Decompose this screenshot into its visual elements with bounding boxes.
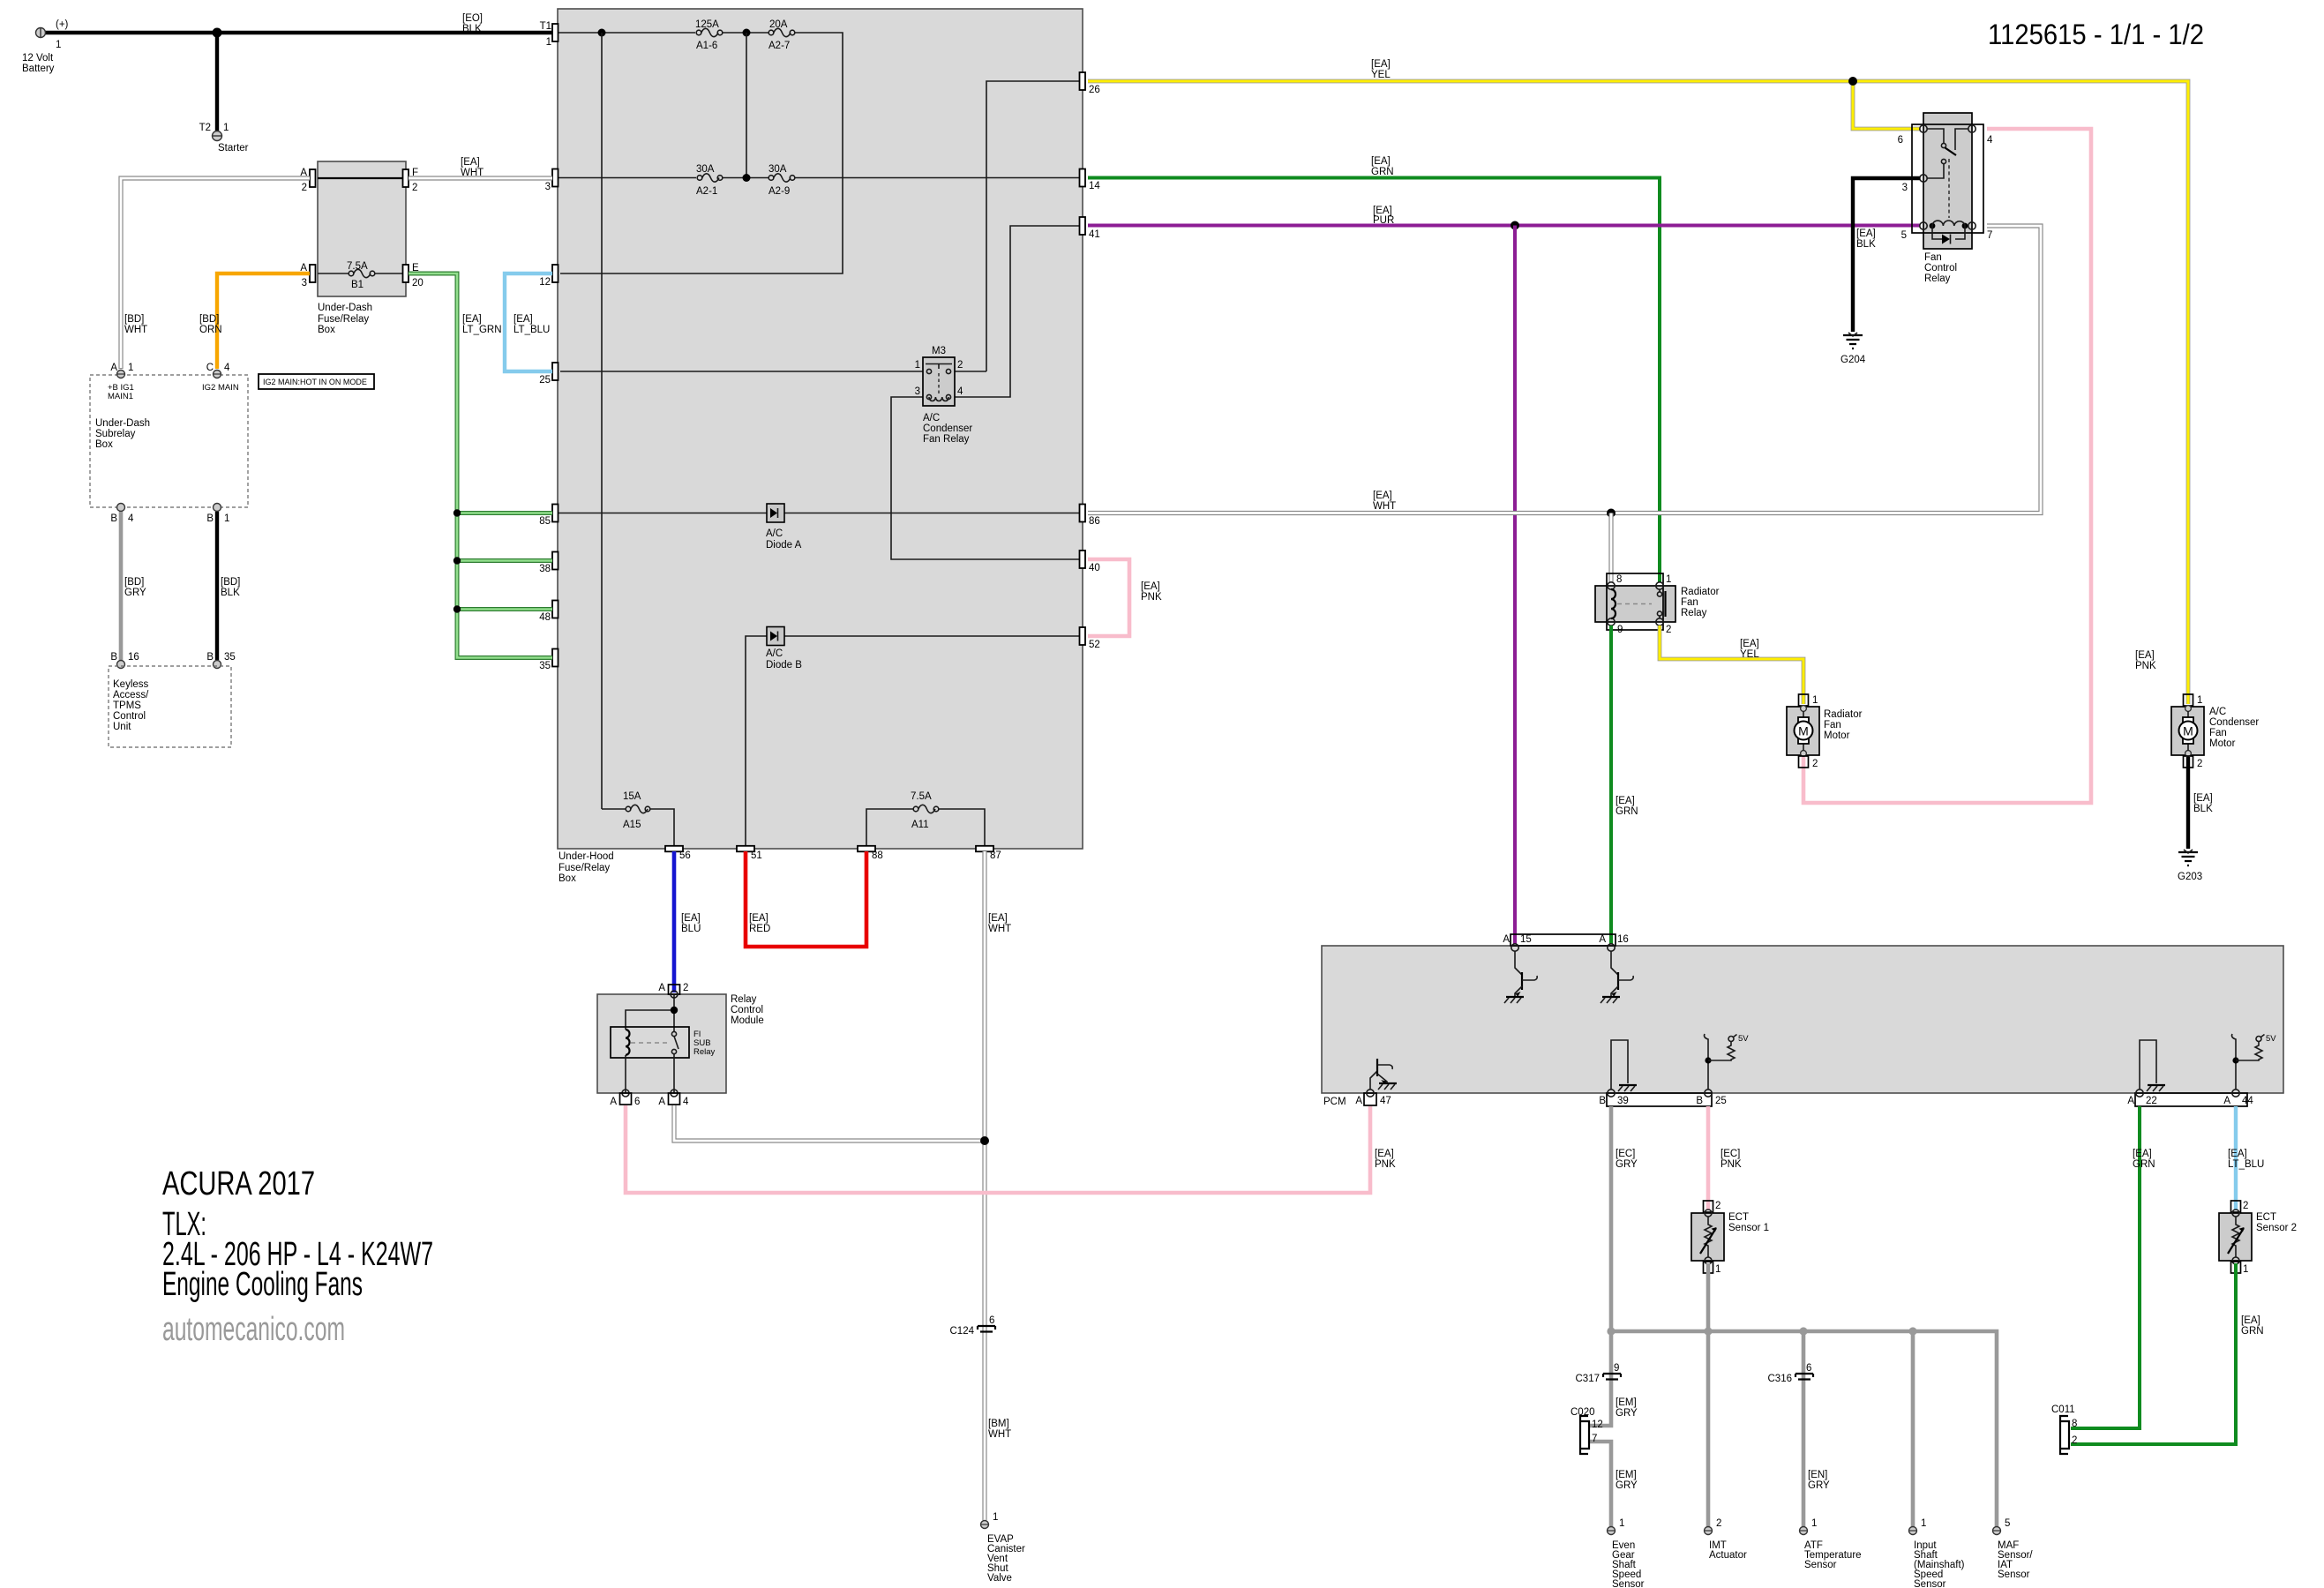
wire [EA] WHT conn86 to fan control relay pin7: [1088, 226, 2041, 513]
svg-text:G203: G203: [2178, 872, 2202, 882]
terminal IG2 MAIN: [202, 363, 239, 393]
svg-text:1: 1: [56, 40, 61, 50]
connector 86 right edge: [1080, 505, 1100, 528]
svg-text:LT_BLU: LT_BLU: [2228, 1159, 2264, 1170]
wire [EA] RED conn51 to conn88: [746, 851, 866, 947]
svg-text:87: 87: [990, 850, 1001, 861]
wire gray Input Shaft drop: [1911, 1331, 1915, 1526]
Under-Dash Fuse/Relay Box: [318, 161, 406, 335]
svg-text:38: 38: [539, 564, 551, 574]
svg-text:[EA]: [EA]: [1740, 639, 1759, 649]
svg-text:WHT: WHT: [124, 325, 147, 335]
wire [EC] PNK B25 to ECT sensor 1: [1708, 1106, 1742, 1210]
svg-text:Fuse/Relay: Fuse/Relay: [318, 314, 369, 325]
svg-text:M: M: [1798, 724, 1809, 738]
wire internal A2-F2: [318, 177, 406, 179]
inline connector C011: [2051, 1404, 2077, 1454]
connector 88 bottom edge: [858, 846, 883, 861]
svg-text:A: A: [610, 1097, 617, 1107]
A/C Diode A: [766, 504, 802, 551]
svg-text:GRY: GRY: [1808, 1480, 1830, 1491]
svg-text:Starter: Starter: [218, 143, 249, 154]
svg-text:Actuator: Actuator: [1709, 1550, 1747, 1561]
svg-text:B: B: [110, 513, 117, 524]
wire yellow branch to fan control relay pin6: [1853, 81, 1920, 129]
svg-text:[EC]: [EC]: [1721, 1149, 1740, 1159]
svg-text:4: 4: [1987, 135, 1993, 146]
svg-text:35: 35: [539, 661, 551, 671]
svg-text:30A: 30A: [696, 164, 715, 175]
svg-text:6: 6: [1898, 135, 1903, 146]
svg-text:25: 25: [539, 375, 551, 386]
inline connector C316: [1768, 1363, 1814, 1384]
svg-text:GRN: GRN: [2133, 1159, 2155, 1170]
svg-text:A2-7: A2-7: [768, 41, 790, 51]
wire [EA] GRN ECT2 to C011 pin2: [2071, 1263, 2264, 1444]
wire [EA] BLK A/C motor pin2 to G203: [2188, 757, 2213, 849]
svg-text:Control: Control: [1924, 263, 1957, 273]
svg-text:Engine Cooling Fans: Engine Cooling Fans: [162, 1266, 363, 1303]
wire [EA] YEL conn26 to A/C condenser fan motor: [1088, 59, 2188, 704]
svg-text:WHT: WHT: [1373, 501, 1396, 512]
Keyless Access/TPMS Control Unit (dashed): [109, 666, 231, 747]
svg-text:20A: 20A: [769, 19, 788, 30]
svg-text:9: 9: [1617, 625, 1623, 635]
svg-text:BLU: BLU: [681, 924, 701, 934]
svg-text:ORN: ORN: [199, 325, 222, 335]
svg-text:A: A: [110, 363, 117, 373]
svg-text:GRN: GRN: [1616, 806, 1638, 817]
connector bracket A22/A44 bottom: [2127, 1090, 2253, 1106]
svg-text:2: 2: [683, 983, 688, 993]
svg-text:M3: M3: [932, 346, 946, 356]
svg-text:C316: C316: [1768, 1374, 1793, 1384]
fuse A2-1 30A: [696, 164, 723, 197]
svg-text:2: 2: [302, 183, 307, 193]
wire internal B1 row: [318, 273, 349, 274]
junction LT_GRN tap 38: [454, 557, 461, 564]
svg-text:ECT: ECT: [2256, 1212, 2276, 1223]
svg-text:Sensor: Sensor: [1998, 1569, 2030, 1580]
wire [EA] GRN A22 to C011 pin8: [2071, 1106, 2155, 1428]
terminal MAF/IAT Sensor: [1993, 1518, 2034, 1580]
wire [BD] BLK: [217, 512, 240, 660]
internal 5V pull-up A44: [2232, 1034, 2277, 1090]
svg-text:2: 2: [2243, 1201, 2248, 1211]
ECT Sensor 2: [2219, 1201, 2297, 1275]
svg-text:30A: 30A: [768, 164, 787, 175]
svg-text:Under-Dash: Under-Dash: [318, 303, 372, 313]
Relay Control Module: [597, 994, 764, 1093]
svg-text:[BD]: [BD]: [124, 314, 144, 325]
wire [EC] GRY B39 to sensor ground bus: [1611, 1106, 1638, 1331]
svg-text:3: 3: [545, 182, 551, 192]
wire row2 to conn14: [795, 177, 1083, 179]
junction row2 x846: [743, 174, 751, 182]
EVAP Canister Vent Shut Valve terminal: [981, 1512, 1025, 1584]
svg-text:[EA]: [EA]: [988, 913, 1008, 924]
svg-text:LT_GRN: LT_GRN: [462, 325, 502, 335]
svg-text:B: B: [110, 652, 117, 663]
wire [EA] BLU conn56 to relay control module A2: [674, 851, 701, 992]
svg-text:[EA]: [EA]: [1373, 491, 1392, 501]
svg-text:14: 14: [1089, 181, 1100, 191]
terminal +B IG1 MAIN1: [108, 363, 134, 401]
svg-text:88: 88: [872, 850, 883, 861]
wire [BD] WHT to subrelay box: [121, 178, 310, 369]
svg-text:A: A: [2223, 1096, 2230, 1106]
wire row1 to 20A output corner down to conn12: [560, 33, 843, 273]
svg-text:[EA]: [EA]: [2193, 793, 2213, 804]
svg-text:3: 3: [302, 278, 307, 288]
svg-text:6: 6: [1806, 1363, 1811, 1374]
wire module internal feed: [626, 994, 674, 1032]
svg-text:Box: Box: [559, 873, 576, 884]
wire [EA] GRN radiator relay pin9 to PCM A16: [1611, 625, 1638, 944]
connector bracket A47 bottom: [1355, 1090, 1391, 1106]
svg-text:Battery: Battery: [22, 64, 55, 74]
svg-text:[EA]: [EA]: [2228, 1149, 2247, 1159]
wire vertical feed x682 to 15A fuse: [601, 33, 603, 809]
wire [EA] LT_BLU conn12 to conn25: [505, 273, 552, 371]
wire [EA] GRN conn14 to radiator fan relay pin1: [1088, 156, 1660, 582]
connector A/3: [300, 263, 315, 288]
svg-text:A: A: [1355, 1096, 1362, 1106]
svg-text:5V: 5V: [1738, 1034, 1749, 1044]
svg-text:Fan: Fan: [1924, 252, 1942, 263]
terminal IMT Actuator: [1705, 1518, 1747, 1561]
svg-text:YEL: YEL: [1740, 649, 1759, 660]
wire [EO] BLK battery feed: [45, 13, 552, 34]
wire row1 between fuses: [723, 32, 768, 34]
svg-text:22: 22: [2146, 1096, 2157, 1106]
svg-text:GRY: GRY: [1616, 1480, 1638, 1491]
connector 25 left edge: [539, 363, 558, 386]
svg-text:[EN]: [EN]: [1808, 1470, 1827, 1480]
fuse A2-7 20A: [768, 19, 795, 51]
svg-text:Fan: Fan: [1681, 597, 1698, 608]
svg-text:[EA]: [EA]: [2135, 650, 2155, 661]
svg-text:Relay: Relay: [693, 1047, 716, 1057]
svg-text:40: 40: [1089, 563, 1100, 573]
svg-text:Condenser: Condenser: [2209, 717, 2259, 728]
Fan Control Relay: [1898, 113, 1993, 284]
Radiator Fan Motor: [1787, 694, 1863, 769]
svg-text:2: 2: [1715, 1201, 1721, 1211]
svg-text:7: 7: [1987, 230, 1992, 241]
wire [BD] ORN to subrelay box: [199, 273, 310, 369]
svg-text:[EA]: [EA]: [1856, 228, 1876, 239]
wire white drop to radiator fan relay pin8: [1608, 513, 1613, 583]
svg-text:Diode B: Diode B: [766, 660, 802, 670]
junction row1 x846: [743, 29, 751, 37]
svg-text:4: 4: [224, 363, 230, 373]
wire gray ECT1 to ground bus: [1706, 1263, 1711, 1526]
connector 41 right edge: [1080, 217, 1100, 240]
svg-text:Relay: Relay: [1924, 273, 1951, 284]
wire purple drop to PCM A15: [1513, 226, 1517, 945]
svg-text:[EA]: [EA]: [1141, 581, 1160, 592]
terminal Input Shaft Speed Sensor: [1909, 1518, 1965, 1588]
svg-text:3: 3: [915, 386, 920, 397]
svg-text:Under-Hood: Under-Hood: [559, 851, 614, 862]
svg-text:1: 1: [223, 123, 229, 133]
internal 5V pull-up B25: [1705, 1034, 1750, 1090]
svg-text:Fan: Fan: [2209, 728, 2227, 738]
connector E/20: [403, 263, 424, 288]
svg-text:7.5A: 7.5A: [911, 791, 932, 802]
svg-text:48: 48: [539, 612, 551, 623]
svg-text:Relay: Relay: [1681, 608, 1707, 618]
svg-text:Control: Control: [731, 1005, 763, 1015]
svg-text:Subrelay: Subrelay: [95, 429, 136, 439]
svg-text:C317: C317: [1576, 1374, 1601, 1384]
svg-text:1: 1: [1619, 1518, 1624, 1529]
wire [EA] BLK fan control relay pin3 to G204: [1853, 178, 1920, 332]
svg-text:A2-9: A2-9: [768, 186, 790, 197]
svg-text:GRY: GRY: [124, 588, 146, 598]
svg-text:C: C: [206, 363, 214, 373]
svg-text:automecanico.com: automecanico.com: [162, 1311, 345, 1348]
svg-text:[EA]: [EA]: [461, 157, 480, 168]
svg-text:BLK: BLK: [2193, 804, 2213, 814]
svg-text:YEL: YEL: [1371, 70, 1391, 80]
svg-text:1: 1: [915, 360, 920, 371]
terminal ATF Temperature Sensor: [1800, 1518, 1862, 1570]
wire [EA] WHT conn87 to EVAP valve: [985, 851, 1011, 1520]
svg-text:RED: RED: [749, 924, 770, 934]
junction row1 x682: [598, 29, 606, 37]
internal ground loop A22: [2140, 1040, 2165, 1091]
wire [EA] PUR conn41 to fan control relay pin5: [1088, 206, 1920, 226]
svg-text:A: A: [2127, 1096, 2134, 1106]
A/C Diode B: [766, 627, 802, 671]
connector 56 bottom edge: [665, 846, 691, 861]
svg-text:25: 25: [1715, 1096, 1727, 1106]
svg-text:86: 86: [1089, 516, 1100, 527]
wire module internal to bottom pins: [626, 1053, 674, 1093]
svg-text:ACURA 2017: ACURA 2017: [162, 1165, 315, 1202]
svg-text:5V: 5V: [2266, 1034, 2276, 1044]
svg-text:[EA]: [EA]: [514, 314, 533, 325]
svg-text:[EA]: [EA]: [462, 314, 482, 325]
svg-text:56: 56: [679, 850, 691, 861]
wire [EA] PNK conn40 to conn52: [1088, 559, 1162, 636]
svg-text:Keyless: Keyless: [113, 679, 149, 690]
connector A/2 module top: [658, 983, 688, 998]
inline connector C317: [1576, 1363, 1622, 1384]
svg-text:B: B: [206, 652, 214, 663]
connector 48 left edge: [539, 601, 558, 624]
connector 51 bottom edge: [737, 846, 762, 861]
svg-text:1: 1: [1666, 574, 1671, 585]
connector 40 right edge: [1080, 551, 1100, 573]
wire diode B row conn52 left and down to conn51: [746, 636, 1083, 849]
svg-text:C011: C011: [2051, 1404, 2075, 1415]
fuse A11 7.5A: [866, 791, 985, 849]
svg-text:44: 44: [2242, 1096, 2253, 1106]
svg-text:A: A: [1599, 934, 1606, 945]
svg-text:39: 39: [1617, 1096, 1629, 1106]
starter terminal T2: [199, 123, 249, 154]
svg-text:Unit: Unit: [113, 722, 131, 732]
svg-text:A/C: A/C: [2209, 707, 2226, 717]
svg-text:1: 1: [546, 37, 551, 48]
junction module feed split: [671, 1007, 678, 1014]
terminal B1 subrelay bottom: [206, 504, 229, 525]
svg-text:1: 1: [128, 363, 133, 373]
svg-text:A1-6: A1-6: [696, 41, 717, 51]
svg-text:Sensor: Sensor: [1914, 1579, 1946, 1588]
svg-text:M: M: [2183, 724, 2193, 738]
svg-text:9: 9: [1614, 1363, 1619, 1374]
wire [EM] GRY label upper: [1616, 1397, 1638, 1419]
svg-text:Motor: Motor: [2209, 738, 2236, 749]
svg-text:Module: Module: [731, 1015, 764, 1026]
svg-text:1: 1: [1715, 1264, 1721, 1275]
svg-text:47: 47: [1380, 1096, 1391, 1106]
fuse A1-6 125A: [695, 19, 723, 51]
svg-text:[EA]: [EA]: [2133, 1149, 2152, 1159]
svg-text:Relay: Relay: [731, 994, 757, 1005]
svg-text:[EA]: [EA]: [749, 913, 768, 924]
battery positive terminal: [22, 19, 69, 74]
svg-text:35: 35: [224, 652, 236, 663]
transistor driver A16: [1601, 951, 1633, 1003]
svg-text:BLK: BLK: [462, 24, 482, 34]
svg-text:12: 12: [539, 277, 551, 288]
connector 12 left edge: [539, 265, 558, 288]
svg-text:4: 4: [128, 513, 134, 524]
A/C Condenser Fan Relay M3: [915, 346, 973, 445]
svg-text:C020: C020: [1571, 1407, 1595, 1418]
svg-text:Control: Control: [113, 711, 146, 722]
junction bus ATF: [1799, 1327, 1807, 1335]
junction white at EVAP line: [980, 1136, 989, 1145]
wire [EA] WHT under-dash to under-hood: [409, 157, 552, 178]
title block ACURA: [162, 1165, 433, 1348]
wire conn26 yellow feed internal: [986, 81, 1083, 371]
wire M3 pin4 to conn41: [951, 226, 1083, 397]
svg-text:Radiator: Radiator: [1681, 587, 1720, 597]
svg-text:2: 2: [1812, 759, 1818, 769]
note box IG2 MAIN:HOT IN ON MODE: [259, 374, 374, 389]
pin circle A16: [1608, 944, 1615, 951]
wire [EA] LT_GRN with taps: [409, 273, 552, 658]
svg-text:4: 4: [957, 386, 963, 397]
svg-text:16: 16: [128, 652, 139, 663]
svg-text:52: 52: [1089, 640, 1100, 650]
svg-text:IG2 MAIN:HOT IN ON MODE: IG2 MAIN:HOT IN ON MODE: [263, 378, 367, 386]
svg-text:BLK: BLK: [1856, 239, 1876, 250]
svg-text:[BD]: [BD]: [221, 577, 240, 588]
svg-text:2: 2: [957, 360, 963, 371]
svg-text:6: 6: [989, 1315, 994, 1326]
svg-text:Fuse/Relay: Fuse/Relay: [559, 863, 610, 873]
svg-text:3: 3: [1902, 183, 1908, 193]
wire [BD] GRY: [121, 512, 146, 660]
svg-text:Access/: Access/: [113, 690, 149, 700]
connector 52 right edge: [1080, 627, 1100, 650]
wire [EN] GRY label: [1808, 1470, 1830, 1491]
svg-text:125A: 125A: [695, 19, 719, 30]
junction battery/starter: [213, 28, 222, 38]
svg-text:T1: T1: [540, 21, 551, 32]
svg-text:4: 4: [683, 1097, 689, 1107]
svg-text:PNK: PNK: [1721, 1159, 1742, 1170]
junction bus ECT1: [1704, 1327, 1712, 1335]
svg-text:6: 6: [634, 1097, 640, 1107]
svg-text:Diode A: Diode A: [766, 540, 802, 551]
transistor driver A15: [1504, 951, 1537, 1003]
svg-text:B: B: [1696, 1096, 1703, 1106]
FI SUB Relay: [611, 1027, 716, 1058]
wire [BM] WHT label: [988, 1419, 1011, 1440]
connector 14 right edge: [1080, 169, 1101, 192]
svg-text:Valve: Valve: [987, 1573, 1012, 1584]
svg-text:Fan: Fan: [1824, 720, 1841, 730]
svg-text:A/C: A/C: [923, 413, 940, 423]
fuse B1 7.5A: [347, 261, 406, 290]
svg-text:G204: G204: [1840, 355, 1866, 365]
svg-text:A: A: [658, 1097, 665, 1107]
svg-text:2: 2: [2072, 1435, 2077, 1446]
ground G204: [1840, 333, 1866, 365]
svg-text:A11: A11: [911, 820, 929, 830]
junction bus left Even Gear: [1607, 1327, 1615, 1335]
svg-text:20: 20: [412, 278, 424, 288]
ECT Sensor 1: [1691, 1201, 1769, 1275]
svg-text:1125615 - 1/1 - 1/2: 1125615 - 1/1 - 1/2: [1988, 19, 2204, 50]
Radiator Fan Relay: [1595, 573, 1720, 635]
svg-text:GRN: GRN: [1371, 167, 1394, 177]
svg-text:B: B: [1599, 1096, 1606, 1106]
svg-text:1: 1: [2243, 1264, 2248, 1275]
Under-Hood Fuse/Relay Box: [558, 9, 1083, 849]
connector 26 right edge: [1080, 72, 1100, 95]
svg-text:A: A: [658, 983, 665, 993]
svg-text:[EA]: [EA]: [1371, 59, 1391, 70]
wire [EA] PNK module A6 to PCM A47: [626, 1105, 1370, 1193]
svg-text:2: 2: [2197, 759, 2202, 769]
connector 3 left edge: [545, 169, 559, 193]
wire [EA] YEL radiator relay pin2 to motor: [1660, 625, 1803, 704]
svg-text:1: 1: [1812, 695, 1818, 706]
svg-text:7.5A: 7.5A: [347, 261, 368, 272]
svg-text:Box: Box: [318, 325, 335, 335]
svg-text:IG2 MAIN: IG2 MAIN: [202, 383, 239, 393]
connector bracket B39/B25 bottom: [1599, 1090, 1726, 1106]
connector F/2: [403, 168, 419, 193]
ground G203: [2178, 850, 2202, 882]
wire internal bus row1 from T1 to fuses: [558, 32, 695, 34]
svg-text:[EO]: [EO]: [462, 13, 483, 24]
svg-text:1: 1: [1921, 1518, 1926, 1529]
svg-text:[EA]: [EA]: [1375, 1149, 1394, 1159]
svg-text:12: 12: [1592, 1419, 1603, 1430]
wire row2 mid: [723, 177, 768, 179]
wire [EA] PNK fan control relay pin4 to radiator fan motor pin2: [1803, 129, 2156, 803]
svg-text:15: 15: [1520, 934, 1532, 945]
svg-text:[EA]: [EA]: [2241, 1315, 2260, 1326]
svg-text:26: 26: [1089, 85, 1100, 95]
svg-text:Condenser: Condenser: [923, 423, 972, 434]
svg-text:[BD]: [BD]: [199, 314, 219, 325]
svg-text:[BD]: [BD]: [124, 577, 144, 588]
svg-text:41: 41: [1089, 229, 1100, 240]
svg-text:Motor: Motor: [1824, 730, 1850, 741]
terminal B16 keyless: [110, 652, 139, 669]
